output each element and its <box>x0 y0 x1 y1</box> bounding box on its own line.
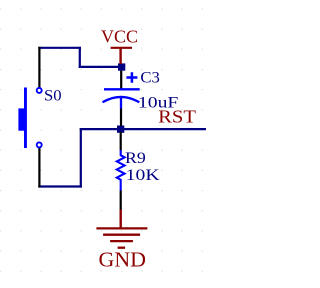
ground bar 4 <box>118 247 126 249</box>
switch S0 bottom pin <box>38 148 40 188</box>
ground bar 3 <box>110 240 133 242</box>
switch S0 top terminal circle <box>37 88 42 93</box>
switch S0 actuator bar <box>24 88 27 149</box>
svg-text:S0: S0 <box>44 88 62 105</box>
switch S0 bottom terminal circle <box>37 142 42 147</box>
svg-text:VCC: VCC <box>101 27 138 47</box>
power symbol VCC bar <box>111 47 132 49</box>
ground bar 1 <box>96 227 147 229</box>
power symbol VCC stub <box>119 48 121 64</box>
resistor R9 bottom pin <box>120 191 122 211</box>
switch S0 button block <box>18 108 24 130</box>
wire vertical step <box>79 47 81 68</box>
ground stub <box>119 210 121 229</box>
wire bottom horizontal to switch <box>38 185 82 187</box>
wire RST horizontal <box>80 128 206 130</box>
ground bar 2 <box>103 234 140 236</box>
capacitor C3 plus sign <box>126 72 137 83</box>
capacitor C3 curved plate <box>103 97 140 102</box>
wire left vertical down to bottom run <box>80 128 82 188</box>
svg-text:10K: 10K <box>126 167 160 184</box>
svg-text:GND: GND <box>99 248 147 272</box>
capacitor C3 top pin <box>120 71 122 89</box>
resistor R9 zigzag <box>117 150 125 191</box>
wire horizontal into VCC junction <box>79 66 121 68</box>
node junction at VCC column <box>118 63 125 70</box>
switch S0 top pin <box>38 47 40 88</box>
node junction at RST column <box>117 126 124 133</box>
capacitor C3 lower lead blue <box>120 98 122 109</box>
capacitor C3 top plate <box>104 88 140 90</box>
svg-text:RST: RST <box>158 107 196 127</box>
wire top horizontal from switch to corner <box>38 47 81 49</box>
svg-text:C3: C3 <box>140 70 160 87</box>
capacitor C3 bottom pin <box>120 109 122 127</box>
resistor R9 top pin <box>120 132 122 151</box>
svg-text:R9: R9 <box>125 150 146 167</box>
